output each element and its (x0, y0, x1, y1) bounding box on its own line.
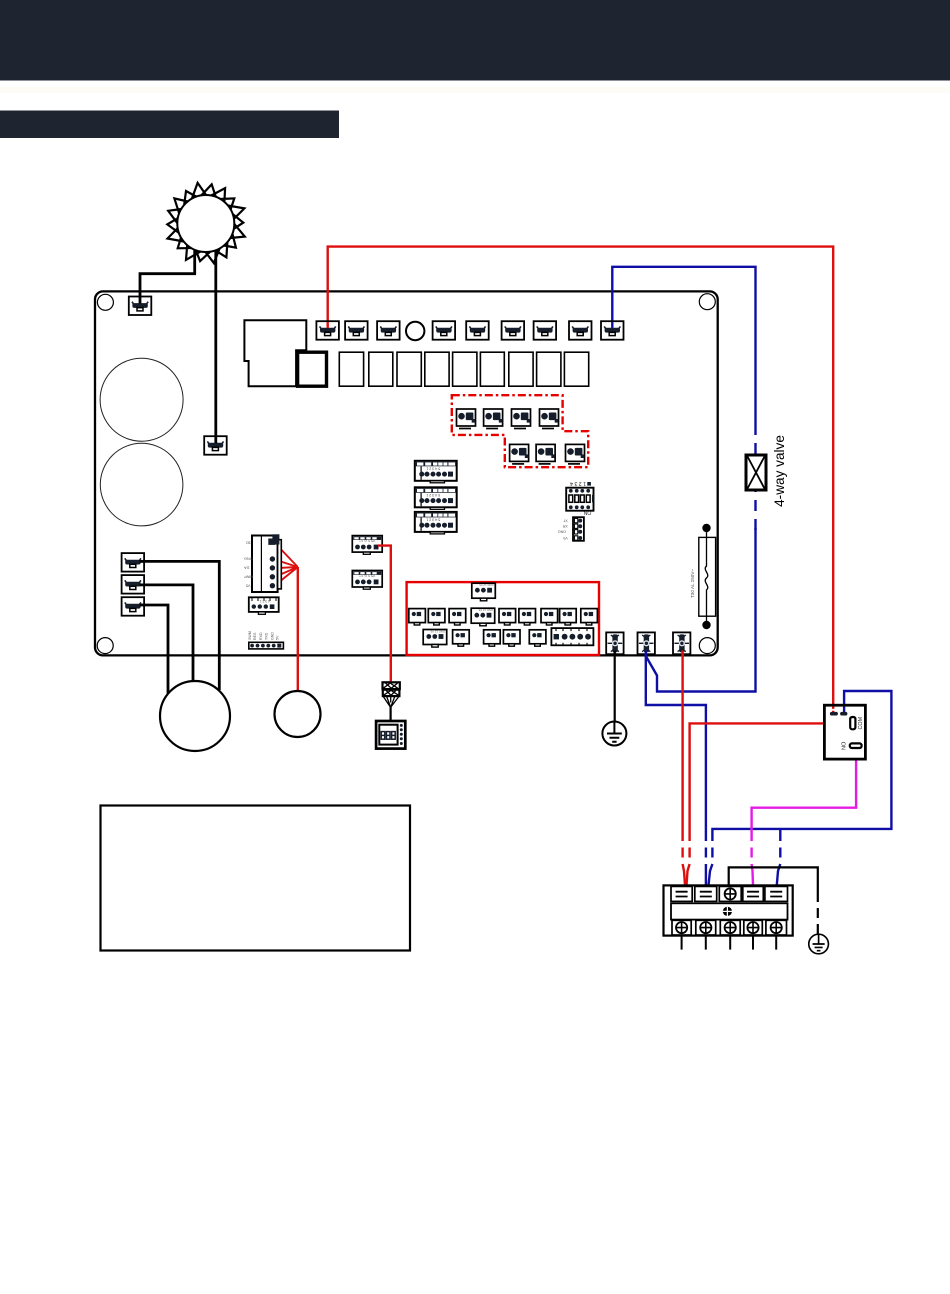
wire stub from CN3 bar (140, 560, 145, 563)
svg-text:TXD: TXD (265, 632, 269, 640)
wire: red fan-out from CN-FAN pins (274, 542, 298, 586)
connector CN1 (top-left, to fan motor) (129, 297, 152, 316)
svg-text:MWP: MWP (244, 575, 254, 579)
wire: black from fan-motor starburst to CN1 (140, 250, 195, 297)
connector CN-OUT4 (433, 321, 456, 340)
wire: black from fan-motor starburst to CN2 (214, 251, 217, 437)
DIP switch S1 label 1234 (570, 480, 591, 486)
sensor connector A4 (499, 609, 516, 625)
wire: black CN5 to compressor (144, 605, 168, 694)
svg-text:ON: ON (583, 509, 591, 515)
terminal lead 4 (752, 936, 754, 950)
connector CN-OUT8 (569, 321, 592, 340)
connector CN-OUT6 (502, 321, 524, 340)
faint band below header (0, 87, 950, 93)
wire stub from CN5 bar (140, 604, 145, 607)
wire: blue dashed section through 4-way valve (754, 424, 756, 530)
wire stub blue into CN-OUT9 (611, 322, 613, 328)
wire: sensor to display (390, 707, 392, 721)
svg-text:NO: NO (842, 741, 848, 750)
sensor connector A3 (449, 609, 466, 625)
power module outline U-PM (244, 320, 306, 386)
relay output connector RH6 (536, 444, 555, 464)
6-pin header labels (248, 631, 280, 640)
sensor connector A1 (409, 609, 426, 625)
svg-text:4 3 2 1: 4 3 2 1 (260, 599, 270, 603)
terminal lead 2 (705, 936, 707, 950)
wire stub black below CN-B1 (614, 651, 616, 657)
mounting hole top-right (699, 294, 715, 310)
svg-text:RXD: RXD (259, 632, 263, 640)
wire: blue into relay top pin 2 (843, 707, 845, 713)
header bar (0, 0, 950, 81)
wire: red CN-B3 down to terminal 1 (681, 654, 683, 841)
4-way valve symbol (746, 455, 766, 490)
pcb board outline (95, 291, 718, 655)
terminal strip CN-TS (551, 628, 593, 645)
relay K6 (453, 352, 477, 386)
mounting hole top-left (97, 294, 113, 310)
display D1 (376, 721, 405, 749)
sensor connector B3 (503, 630, 520, 646)
serial header CN-S (573, 517, 584, 541)
right 4-pin connector CN-R2 (352, 571, 382, 590)
earth ground G2 (809, 934, 829, 954)
terminal screw S5 (766, 920, 787, 935)
vertical connector CN-B1 (606, 632, 623, 654)
sensor connector A7 (560, 609, 577, 625)
terminal block TB1 (664, 885, 793, 935)
wire: black CN3 to compressor (144, 561, 220, 690)
earth ground G1 (602, 722, 626, 746)
connector CN3 (compressor U) (122, 553, 145, 572)
sensor connector A6 (541, 609, 558, 625)
connector CN5 (compressor W) (122, 597, 145, 616)
wire: red from CN-OUT1 up and right to relay K1 (328, 247, 834, 712)
relay output connector RH5 (510, 444, 529, 464)
sensor connector A2 (428, 609, 445, 625)
terminal lead 5 (775, 936, 777, 950)
sensor connector B1 (453, 630, 470, 646)
relay input pin 1 (830, 712, 838, 716)
svg-text:GND: GND (270, 632, 274, 640)
wire: black earth from terminal 3 (729, 867, 818, 902)
connector CN-OUT5 (466, 321, 489, 340)
fan motor circle M2 (275, 691, 321, 737)
6-pin header CN-H (249, 642, 284, 649)
sensor connector B4 (529, 630, 546, 646)
sensor connector A8 (581, 609, 598, 625)
red dash-dot box around heater outputs (452, 395, 588, 467)
relay output connector RH2 (484, 409, 503, 429)
connector CN-OUT1 (316, 321, 339, 340)
wire stub into CN2 (214, 437, 217, 444)
relay K9 (537, 352, 561, 386)
relay K2 (339, 352, 363, 386)
svg-text:1IA: 1IA (244, 566, 250, 570)
relay COM pin (850, 717, 855, 729)
wire: magenta relay NO to terminal 4 (855, 748, 857, 752)
pressure sensor P1 (383, 682, 400, 707)
wire: black CN-B1 to earth (614, 654, 616, 721)
fan motor starburst (167, 183, 245, 263)
terminal center screw (723, 907, 732, 916)
wire stub red into CN-OUT1 (327, 322, 329, 328)
terminal cell T4 (743, 886, 764, 901)
terminal screw S3 (720, 920, 740, 935)
fuse F1 bottom pad (702, 621, 710, 629)
red box around low-voltage terminals (407, 582, 599, 655)
sensor connector A-3pin (471, 608, 495, 626)
mounting hole bottom-left (97, 638, 113, 654)
terminal cell T1 (671, 886, 692, 901)
svg-text:4-way valve: 4-way valve (772, 435, 787, 507)
wire: red relay COM to terminal 1 (690, 723, 850, 841)
relay output connector RH4 (540, 409, 559, 429)
DIP switch S1 (566, 488, 593, 511)
fuse F1 (699, 532, 716, 621)
relay output connector RH3 (512, 409, 531, 429)
indicator circle on top row (406, 322, 424, 340)
section title bar (0, 111, 339, 139)
wire: red dashes into relay top pin 1 (832, 707, 834, 713)
relay input pin 2 (840, 712, 847, 716)
relay K1 (298, 352, 327, 386)
multipin block CN-M2 (415, 487, 457, 509)
svg-text:V5: V5 (563, 536, 567, 540)
connector CN-OUT7 (534, 321, 557, 340)
wire: blue from CN-OUT9 up right and down to 4-way valve coil (612, 267, 755, 424)
4-pin connector CN-F2 below fan block (249, 597, 279, 614)
svg-text:DNG: DNG (244, 557, 252, 561)
terminal screw S4 (744, 920, 763, 935)
terminal cell T2 (695, 886, 717, 901)
wire stub red below CN-B3 (681, 651, 683, 657)
terminal cell T5 (765, 886, 788, 901)
wire stub from CN4 bar (140, 584, 145, 587)
compressor circle M1 (160, 681, 230, 751)
vertical connector CN-B2 (638, 632, 655, 654)
multipin block CN-M3 (415, 512, 457, 534)
capacitor circle C1 (100, 358, 183, 441)
sensor connector B2 (484, 630, 501, 646)
connector CN-OUT9 (601, 321, 624, 340)
svg-text:RES: RES (253, 632, 257, 640)
fan block pin labels (244, 541, 254, 588)
relay output connector RH7 (566, 444, 585, 464)
wire: red CN-R1 to pressure sensor (378, 546, 391, 682)
connector CN-OUT2 (345, 321, 368, 340)
vertical connector CN-B3 (673, 632, 690, 654)
terminal screw S1 (672, 920, 691, 935)
wire: blue CN-B2 down to terminal 2 (646, 654, 706, 841)
sensor connector A5 (519, 609, 536, 625)
fan control block CN-FAN (252, 534, 281, 592)
fuse F1 top pad (702, 524, 710, 532)
serial header pin labels (558, 518, 568, 539)
relay NO pin (850, 743, 862, 748)
wire: blue relay loop to terminals 2 and 5 (712, 691, 891, 841)
terminal cell T3 (719, 886, 741, 901)
svg-text:1 2 3 4: 1 2 3 4 (570, 480, 586, 486)
svg-text:COM: COM (858, 716, 864, 729)
capacitor circle C2 (100, 443, 183, 526)
relay K4 (397, 352, 421, 386)
wire stub blue below CN-B2 (645, 651, 647, 657)
terminal screw S2 (696, 920, 716, 935)
svg-text:XT: XT (562, 518, 567, 522)
terminal lead 1 (681, 936, 683, 950)
sensor connector CN-T0 (above row) (472, 583, 496, 601)
wire stub into CN1 (139, 297, 142, 304)
connector CN4 (compressor V) (122, 575, 145, 594)
relay K3 (369, 352, 393, 386)
svg-text:3D: 3D (246, 541, 251, 545)
svg-text:T30 AL 250V~: T30 AL 250V~ (690, 569, 695, 598)
relay K10 (564, 352, 588, 386)
relay K8 (509, 352, 533, 386)
relay K5 (425, 352, 449, 386)
svg-text:DNG: DNG (558, 530, 566, 534)
relay output connector RH1 (457, 409, 476, 429)
wire: black CN4 to compressor (144, 585, 193, 682)
svg-text:SWM: SWM (248, 631, 252, 640)
multipin block CN-M1 (415, 461, 457, 483)
mounting hole bottom-right (699, 638, 715, 654)
right 4-pin connector CN-R1 (352, 536, 382, 555)
svg-text:5V: 5V (276, 635, 280, 640)
legend box (101, 806, 411, 951)
wire: red to fan motor M2 (297, 567, 299, 692)
connector CN2 (to fan motor) (204, 436, 227, 455)
relay K7 (480, 352, 504, 386)
svg-text:V5: V5 (246, 583, 251, 587)
sensor connector B-3pin (423, 630, 447, 648)
terminal lead 3 (729, 936, 731, 950)
relay K-AC box (824, 705, 865, 759)
svg-text:XR: XR (562, 524, 567, 528)
wire: blue from valve down to CN-B2 (646, 528, 756, 692)
connector CN-OUT3 (377, 321, 400, 340)
